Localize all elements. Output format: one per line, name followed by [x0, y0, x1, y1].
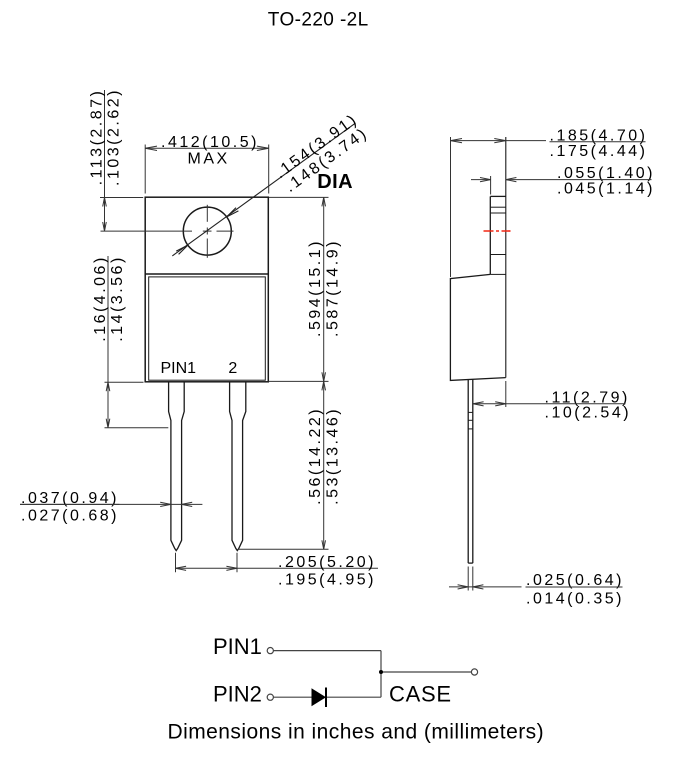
svg-text:.587(14.9): .587(14.9): [325, 239, 342, 337]
svg-text:.014(0.35): .014(0.35): [526, 590, 624, 607]
svg-text:.025(0.64): .025(0.64): [526, 572, 624, 589]
svg-text:.045(1.14): .045(1.14): [557, 181, 655, 198]
svg-text:.56(14.22): .56(14.22): [307, 407, 324, 505]
svg-text:Dimensions in inches and (mill: Dimensions in inches and (millimeters): [168, 720, 545, 743]
svg-text:PIN2: PIN2: [213, 681, 262, 706]
svg-text:.53(13.46): .53(13.46): [325, 407, 342, 505]
svg-text:.16(4.06): .16(4.06): [92, 255, 109, 342]
svg-text:.103(2.62): .103(2.62): [106, 88, 123, 186]
svg-text:PIN1: PIN1: [213, 634, 262, 659]
svg-text:DIA: DIA: [317, 171, 353, 193]
svg-text:.205(5.20): .205(5.20): [278, 554, 376, 571]
svg-text:.14(3.56): .14(3.56): [109, 255, 126, 342]
svg-text:PIN1: PIN1: [161, 360, 197, 377]
svg-text:TO-220 -2L: TO-220 -2L: [268, 10, 369, 31]
svg-text:MAX: MAX: [188, 151, 230, 168]
svg-text:.195(4.95): .195(4.95): [278, 572, 376, 589]
svg-text:.594(15.1): .594(15.1): [307, 239, 324, 337]
svg-text:.027(0.68): .027(0.68): [21, 508, 119, 525]
svg-text:.113(2.87): .113(2.87): [88, 89, 105, 186]
svg-text:.10(2.54): .10(2.54): [545, 405, 632, 422]
svg-text:.412(10.5): .412(10.5): [161, 134, 259, 151]
svg-text:CASE: CASE: [389, 681, 452, 706]
svg-text:.175(4.44): .175(4.44): [550, 143, 648, 160]
svg-text:2: 2: [228, 360, 237, 377]
